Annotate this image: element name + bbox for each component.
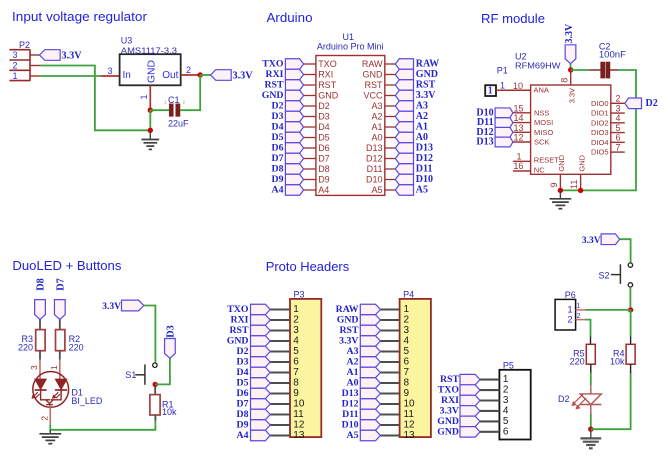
svg-text:12: 12 — [404, 420, 416, 431]
node D13 flag — [495, 137, 513, 147]
U2 pin 13 MISO — [513, 131, 531, 133]
svg-text:GND: GND — [577, 154, 586, 171]
svg-text:BI_LED: BI_LED — [71, 396, 103, 406]
svg-text:D4: D4 — [237, 367, 249, 378]
LED D1 BI_LED — [33, 372, 69, 408]
svg-text:A5: A5 — [371, 185, 382, 195]
U1 left pin RXI — [304, 74, 316, 76]
U1 left pin GND — [304, 95, 316, 97]
svg-text:P5: P5 — [503, 361, 514, 371]
P5 pin 4 3.3V — [480, 410, 499, 412]
svg-text:2: 2 — [503, 385, 509, 396]
U1 right pin D11 — [385, 168, 396, 170]
svg-text:D10: D10 — [366, 175, 383, 185]
svg-text:2: 2 — [12, 61, 17, 71]
P5 pin 3 RXI — [480, 399, 499, 401]
svg-text:D6: D6 — [318, 143, 330, 153]
svg-text:A4: A4 — [318, 185, 329, 195]
op-amp U1 Arduino Pro Mini box — [316, 56, 385, 196]
P3 pin 3 RST — [270, 329, 290, 331]
svg-text:D12: D12 — [342, 399, 359, 410]
svg-text:D2: D2 — [272, 101, 284, 112]
wire node to C2 — [571, 69, 589, 71]
svg-text:12: 12 — [293, 420, 305, 431]
supply 3.3V flag above U2 — [565, 45, 576, 64]
svg-text:15: 15 — [513, 103, 523, 113]
svg-text:D2: D2 — [646, 98, 658, 109]
svg-text:NC: NC — [534, 166, 545, 175]
svg-text:2: 2 — [293, 315, 299, 326]
svg-text:P6: P6 — [565, 290, 576, 300]
svg-text:1: 1 — [12, 71, 17, 81]
svg-text:11: 11 — [293, 409, 304, 420]
svg-text:A5: A5 — [416, 185, 428, 196]
resistor R5 220 — [586, 344, 595, 364]
svg-text:D13: D13 — [416, 143, 433, 154]
svg-text:D10: D10 — [416, 174, 433, 185]
wire node to D3 flag — [155, 358, 170, 384]
svg-text:7: 7 — [615, 142, 620, 152]
capacitor C1 22uF — [169, 104, 173, 117]
P4 pin 7 A1 — [380, 371, 399, 373]
svg-text:GND: GND — [337, 315, 359, 326]
node D6 flag (U1 left) — [285, 143, 303, 154]
svg-text:10: 10 — [404, 399, 416, 410]
wire D7 flag to R2 — [59, 319, 61, 329]
svg-text:D5: D5 — [272, 132, 284, 143]
P5 pin 6 GND — [480, 431, 499, 433]
svg-text:A1: A1 — [416, 122, 428, 133]
svg-text:1: 1 — [576, 303, 580, 310]
svg-text:RAW: RAW — [416, 59, 439, 70]
U1 right pin A5 — [385, 189, 396, 191]
svg-text:12: 12 — [513, 133, 523, 143]
svg-text:3.3V: 3.3V — [567, 88, 576, 103]
U1 right pin A1 — [385, 126, 396, 128]
svg-text:D2: D2 — [318, 101, 330, 111]
D1 pin 1 line — [59, 351, 61, 360]
node GND flag (U1 right) — [395, 69, 413, 80]
P1 pin line to U2 ANA — [496, 89, 531, 91]
U1 right pin RST — [385, 84, 396, 86]
node at U3 GND / C1 — [148, 108, 153, 113]
svg-text:4: 4 — [293, 336, 299, 347]
node D3 flag (vertical) — [165, 339, 176, 359]
svg-text:5: 5 — [615, 123, 620, 133]
svg-text:D4: D4 — [272, 122, 284, 133]
node D13 flag (U1 right) — [395, 143, 413, 154]
svg-text:D6: D6 — [272, 143, 284, 154]
svg-text:4: 4 — [404, 336, 410, 347]
svg-text:DIO5: DIO5 — [591, 148, 609, 157]
svg-text:10: 10 — [293, 399, 305, 410]
svg-text:1: 1 — [404, 304, 410, 315]
P3 pin 6 D3 — [270, 361, 290, 363]
svg-text:D3: D3 — [165, 325, 176, 338]
svg-text:14: 14 — [513, 113, 523, 123]
supply 3.3V flag at U3 output — [211, 70, 232, 81]
svg-text:3.3V: 3.3V — [440, 405, 459, 416]
U2 pin 3 DIO1 — [611, 112, 625, 114]
P4 pin 12 D10 — [380, 424, 399, 426]
svg-text:A0: A0 — [347, 378, 359, 389]
P4 pin 9 D13 — [380, 392, 399, 394]
IC U2 RFM69HW box — [531, 85, 611, 174]
node D4 flag (U1 left) — [285, 122, 303, 133]
svg-text:9: 9 — [404, 388, 410, 399]
U2 pin 7 DIO5 — [611, 151, 625, 153]
svg-text:U3: U3 — [121, 36, 133, 46]
svg-text:A0: A0 — [371, 133, 382, 143]
switch S1 — [153, 363, 157, 367]
svg-text:D8: D8 — [237, 409, 249, 420]
svg-text:2: 2 — [404, 315, 410, 326]
U2 pin 2 DIO0 — [611, 102, 625, 104]
svg-text:DIO1: DIO1 — [591, 109, 609, 118]
svg-text:3: 3 — [293, 325, 299, 336]
svg-text:6: 6 — [293, 357, 299, 368]
svg-text:TXO: TXO — [227, 304, 249, 315]
resistor R3 220 — [36, 330, 45, 351]
wire gnd node down — [149, 110, 151, 130]
svg-text:Proto Headers: Proto Headers — [266, 259, 350, 274]
node D2/R4 ground — [588, 427, 593, 432]
svg-text:RST: RST — [229, 325, 249, 336]
svg-text:3: 3 — [12, 50, 17, 60]
svg-text:S2: S2 — [598, 271, 609, 281]
P3 pin 12 D9 — [270, 424, 290, 426]
wire 3.3V flag to node — [570, 64, 572, 70]
wire D8 flag to R3 — [39, 319, 41, 329]
svg-text:D10: D10 — [342, 420, 359, 431]
node D10 flag (U1 right) — [395, 174, 413, 185]
node D11 flag (U1 right) — [395, 164, 413, 175]
wire C2 to ground rail (right riser) — [560, 70, 636, 190]
connector P2 — [9, 49, 30, 81]
svg-text:D6: D6 — [237, 388, 249, 399]
svg-text:3.3V: 3.3V — [62, 51, 83, 62]
node at U3 output — [198, 72, 203, 77]
svg-text:Arduino: Arduino — [267, 10, 313, 25]
P5 pin 5 GND — [480, 420, 499, 422]
svg-text:C1: C1 — [168, 95, 180, 105]
svg-text:TXO: TXO — [318, 59, 337, 69]
R1 top stub — [154, 387, 156, 395]
U3 GND pin 1 — [149, 85, 151, 110]
resistor R1 10k — [150, 395, 160, 415]
svg-text:MISO: MISO — [534, 128, 553, 137]
svg-text:13: 13 — [513, 123, 523, 133]
svg-text:GND: GND — [147, 60, 158, 83]
node TXO flag (U1 left) — [285, 59, 303, 70]
resistor R2 220 — [56, 330, 65, 351]
svg-text:DuoLED + Buttons: DuoLED + Buttons — [12, 258, 121, 273]
P4 pin 6 A2 — [380, 361, 399, 363]
svg-text:A3: A3 — [347, 346, 359, 357]
svg-text:A2: A2 — [371, 112, 382, 122]
node D7 flag (U1 left) — [285, 153, 303, 164]
wire P2 pin2 to ground node — [40, 66, 151, 131]
P4 pin 10 D12 — [380, 403, 399, 405]
wire 3.3V to S2 — [620, 239, 631, 263]
node at regulator ground — [148, 128, 153, 133]
svg-text:4: 4 — [615, 113, 620, 123]
svg-text:GND: GND — [318, 91, 339, 101]
svg-text:220: 220 — [570, 357, 585, 367]
svg-text:10k: 10k — [162, 407, 177, 417]
U2 pin 16 NC (stub) — [513, 170, 531, 172]
P4 pin 4 3.3V — [380, 340, 399, 342]
svg-text:22uF: 22uF — [168, 119, 189, 129]
svg-text:Input voltage regulator: Input voltage regulator — [12, 9, 148, 24]
node U2 gnd 11 — [578, 188, 583, 193]
P3 pin 7 D4 — [270, 371, 290, 373]
svg-text:6: 6 — [503, 426, 509, 437]
node D2 flag (DIO0) — [625, 98, 642, 109]
wire R4 green from node — [630, 310, 632, 336]
P3 pin 4 GND — [270, 340, 290, 342]
svg-text:6: 6 — [404, 357, 410, 368]
svg-text:D13: D13 — [366, 143, 383, 153]
svg-text:SCK: SCK — [534, 138, 549, 147]
svg-text:MOSI: MOSI — [534, 118, 553, 127]
U1 right pin A2 — [385, 116, 396, 118]
svg-text:8: 8 — [293, 378, 299, 389]
node A1 flag (U1 right) — [395, 122, 413, 133]
svg-text:GND: GND — [363, 70, 384, 80]
svg-text:2: 2 — [577, 313, 581, 320]
svg-text:D9: D9 — [272, 174, 284, 185]
svg-text:D3: D3 — [318, 112, 330, 122]
P4 pin 1 RAW — [380, 308, 399, 310]
svg-text:DIO3: DIO3 — [591, 128, 609, 137]
U1 left pin A4 — [304, 189, 316, 191]
svg-text:3: 3 — [29, 365, 39, 370]
U3 Out pin 2 — [181, 74, 201, 76]
svg-text:7: 7 — [404, 367, 410, 378]
wire U3 out to 3.3V flag — [200, 74, 210, 76]
node A4 flag (U1 left) — [285, 185, 303, 196]
node D3 flag (U1 left) — [285, 111, 303, 122]
svg-text:A4: A4 — [272, 185, 284, 196]
svg-text:5: 5 — [293, 346, 299, 357]
wire P6 pin2 to R5 — [585, 320, 590, 337]
header P3 — [290, 299, 321, 437]
U2 GND pin 11 — [580, 174, 582, 190]
ground symbol (duoled) — [49, 430, 51, 434]
svg-text:1: 1 — [488, 85, 493, 96]
svg-text:9: 9 — [293, 388, 299, 399]
svg-text:D5: D5 — [318, 133, 330, 143]
U1 left pin D8 — [304, 168, 316, 170]
P4 pin 3 RST — [380, 329, 399, 331]
svg-text:P1: P1 — [497, 65, 508, 75]
svg-text:3.3V: 3.3V — [102, 302, 121, 312]
svg-text:100nF: 100nF — [599, 50, 627, 60]
P4 pin 11 D11 — [380, 413, 399, 415]
svg-text:P3: P3 — [294, 290, 305, 300]
svg-text:3: 3 — [107, 66, 112, 76]
svg-text:RAW: RAW — [336, 304, 359, 315]
svg-text:RST: RST — [264, 80, 284, 91]
svg-text:Out: Out — [162, 70, 178, 81]
svg-text:A5: A5 — [347, 430, 359, 441]
svg-text:P4: P4 — [403, 290, 414, 300]
svg-text:D8: D8 — [36, 278, 47, 291]
supply 3.3V flag at P2 pin 3 — [40, 50, 61, 61]
svg-text:13: 13 — [404, 430, 416, 441]
U1 left pin TXO — [304, 63, 316, 65]
D1 pin 2 line — [49, 405, 51, 425]
svg-text:NSS: NSS — [534, 108, 549, 117]
svg-text:10: 10 — [513, 81, 523, 91]
U1 right pin RAW — [385, 63, 396, 65]
svg-text:220: 220 — [69, 342, 84, 352]
svg-text:Arduino Pro Mini: Arduino Pro Mini — [317, 41, 384, 51]
svg-text:TXO: TXO — [262, 59, 284, 70]
node GND flag (U1 left) — [285, 90, 303, 101]
node D10 flag — [495, 108, 513, 118]
svg-text:A3: A3 — [371, 101, 382, 111]
P3 pin 10 D7 — [270, 403, 290, 405]
node D7 flag (vertical) — [54, 300, 65, 320]
U2 pin 14 MOSI — [513, 122, 531, 124]
svg-text:11: 11 — [404, 409, 415, 420]
node D2 flag (U1 left) — [285, 101, 303, 112]
node A0 flag (U1 right) — [395, 132, 413, 143]
U2 pin 6 DIO4 — [611, 141, 625, 143]
P3 pin 13 A4 — [270, 434, 290, 436]
svg-text:A1: A1 — [347, 367, 359, 378]
svg-text:9: 9 — [549, 182, 559, 187]
ground symbol (regulator) — [149, 130, 151, 139]
wire P6 pin1 to node — [585, 309, 630, 311]
svg-text:1: 1 — [293, 304, 299, 315]
svg-text:D8: D8 — [318, 164, 330, 174]
D1 pin 3 line — [39, 351, 41, 360]
svg-text:RESET: RESET — [534, 155, 559, 164]
svg-text:3.3V: 3.3V — [416, 90, 437, 101]
svg-text:D3: D3 — [237, 357, 249, 368]
svg-text:3: 3 — [615, 103, 620, 113]
U2 GND pin 9 — [559, 174, 561, 190]
svg-text:RFM69HW: RFM69HW — [515, 61, 561, 71]
svg-text:RF module: RF module — [481, 11, 545, 26]
svg-text:1: 1 — [516, 151, 521, 161]
svg-text:RXI: RXI — [266, 69, 284, 80]
svg-text:RST: RST — [339, 325, 359, 336]
svg-text:GND: GND — [416, 69, 438, 80]
svg-text:D3: D3 — [272, 111, 284, 122]
U1 left pin RST — [304, 84, 316, 86]
svg-text:8: 8 — [560, 78, 570, 83]
svg-text:220: 220 — [18, 342, 33, 352]
svg-text:RXI: RXI — [231, 315, 249, 326]
P3 pin 8 D5 — [270, 382, 290, 384]
U2 pin 5 DIO3 — [611, 132, 625, 134]
svg-text:8: 8 — [404, 378, 410, 389]
svg-text:A0: A0 — [416, 132, 428, 143]
svg-text:3.3V: 3.3V — [339, 336, 358, 347]
node D8 flag (U1 left) — [285, 164, 303, 175]
node S1 / R1 / D3 — [153, 382, 158, 387]
svg-text:5: 5 — [503, 416, 509, 427]
node A2 flag (U1 right) — [395, 111, 413, 122]
U1 right pin A3 — [385, 105, 396, 107]
svg-text:D7: D7 — [318, 154, 330, 164]
svg-text:10k: 10k — [610, 357, 625, 367]
U1 right pin D12 — [385, 158, 396, 160]
svg-text:2: 2 — [186, 65, 191, 75]
svg-text:GND: GND — [262, 90, 284, 101]
svg-text:D13: D13 — [476, 137, 493, 148]
svg-text:GND: GND — [227, 336, 249, 347]
node RXI flag (U1 left) — [285, 69, 303, 80]
svg-text:2: 2 — [567, 314, 572, 325]
svg-text:RAW: RAW — [362, 59, 383, 69]
node RAW flag (U1 right) — [395, 59, 413, 70]
R5 bottom stub — [590, 364, 592, 373]
node P6 pin1 / S2 / R4 — [628, 307, 633, 312]
U2 pin 8 3.3V — [570, 70, 572, 85]
svg-text:RST: RST — [440, 374, 460, 385]
node 3.3V flag (U1 right) — [395, 90, 413, 101]
U2 pin 1 RESET (stub) — [513, 160, 531, 162]
D1 light arrows — [34, 392, 38, 396]
svg-text:D8: D8 — [272, 164, 284, 175]
svg-text:D11: D11 — [367, 164, 383, 174]
P4 pin 8 A0 — [380, 382, 399, 384]
D1 common cathode chevron — [46, 400, 53, 404]
node D8 flag (vertical) — [35, 300, 46, 320]
svg-text:DIO4: DIO4 — [591, 138, 609, 147]
svg-text:TXO: TXO — [438, 385, 460, 396]
node A5 flag (U1 right) — [395, 185, 413, 196]
U2 pin 12 SCK — [513, 141, 531, 143]
U1 left pin D2 — [304, 105, 316, 107]
wire P2 pin1 to U3 In — [40, 75, 101, 77]
svg-text:D4: D4 — [318, 122, 330, 132]
svg-text:P2: P2 — [19, 40, 30, 50]
svg-text:GND: GND — [437, 426, 459, 437]
svg-text:D12: D12 — [416, 153, 433, 164]
svg-text:1: 1 — [49, 365, 59, 370]
svg-text:3.3V: 3.3V — [233, 71, 254, 82]
svg-text:A2: A2 — [416, 111, 428, 122]
U1 left pin D7 — [304, 158, 316, 160]
R1 bottom stub — [154, 415, 156, 421]
U1 right pin D13 — [385, 147, 396, 149]
node D12 flag — [495, 127, 513, 137]
svg-text:GND: GND — [557, 154, 566, 171]
svg-text:3.3V: 3.3V — [582, 236, 601, 246]
U1 left pin D3 — [304, 116, 316, 118]
svg-text:DIO0: DIO0 — [591, 99, 609, 108]
svg-text:VCC: VCC — [363, 91, 383, 101]
node D11 flag — [495, 118, 513, 128]
P3 pin 2 RXI — [270, 319, 290, 321]
svg-text:2: 2 — [39, 416, 49, 421]
svg-text:D9: D9 — [237, 420, 249, 431]
wire U3 gnd to C1 — [150, 109, 169, 111]
wire D2 to ground node — [590, 414, 592, 429]
svg-text:D2: D2 — [237, 346, 249, 357]
svg-text:3: 3 — [503, 395, 509, 406]
node A3 flag (U1 right) — [395, 101, 413, 112]
P6 pin stubs — [576, 309, 586, 311]
svg-text:4: 4 — [503, 405, 509, 416]
U1 right pin A0 — [385, 137, 396, 139]
